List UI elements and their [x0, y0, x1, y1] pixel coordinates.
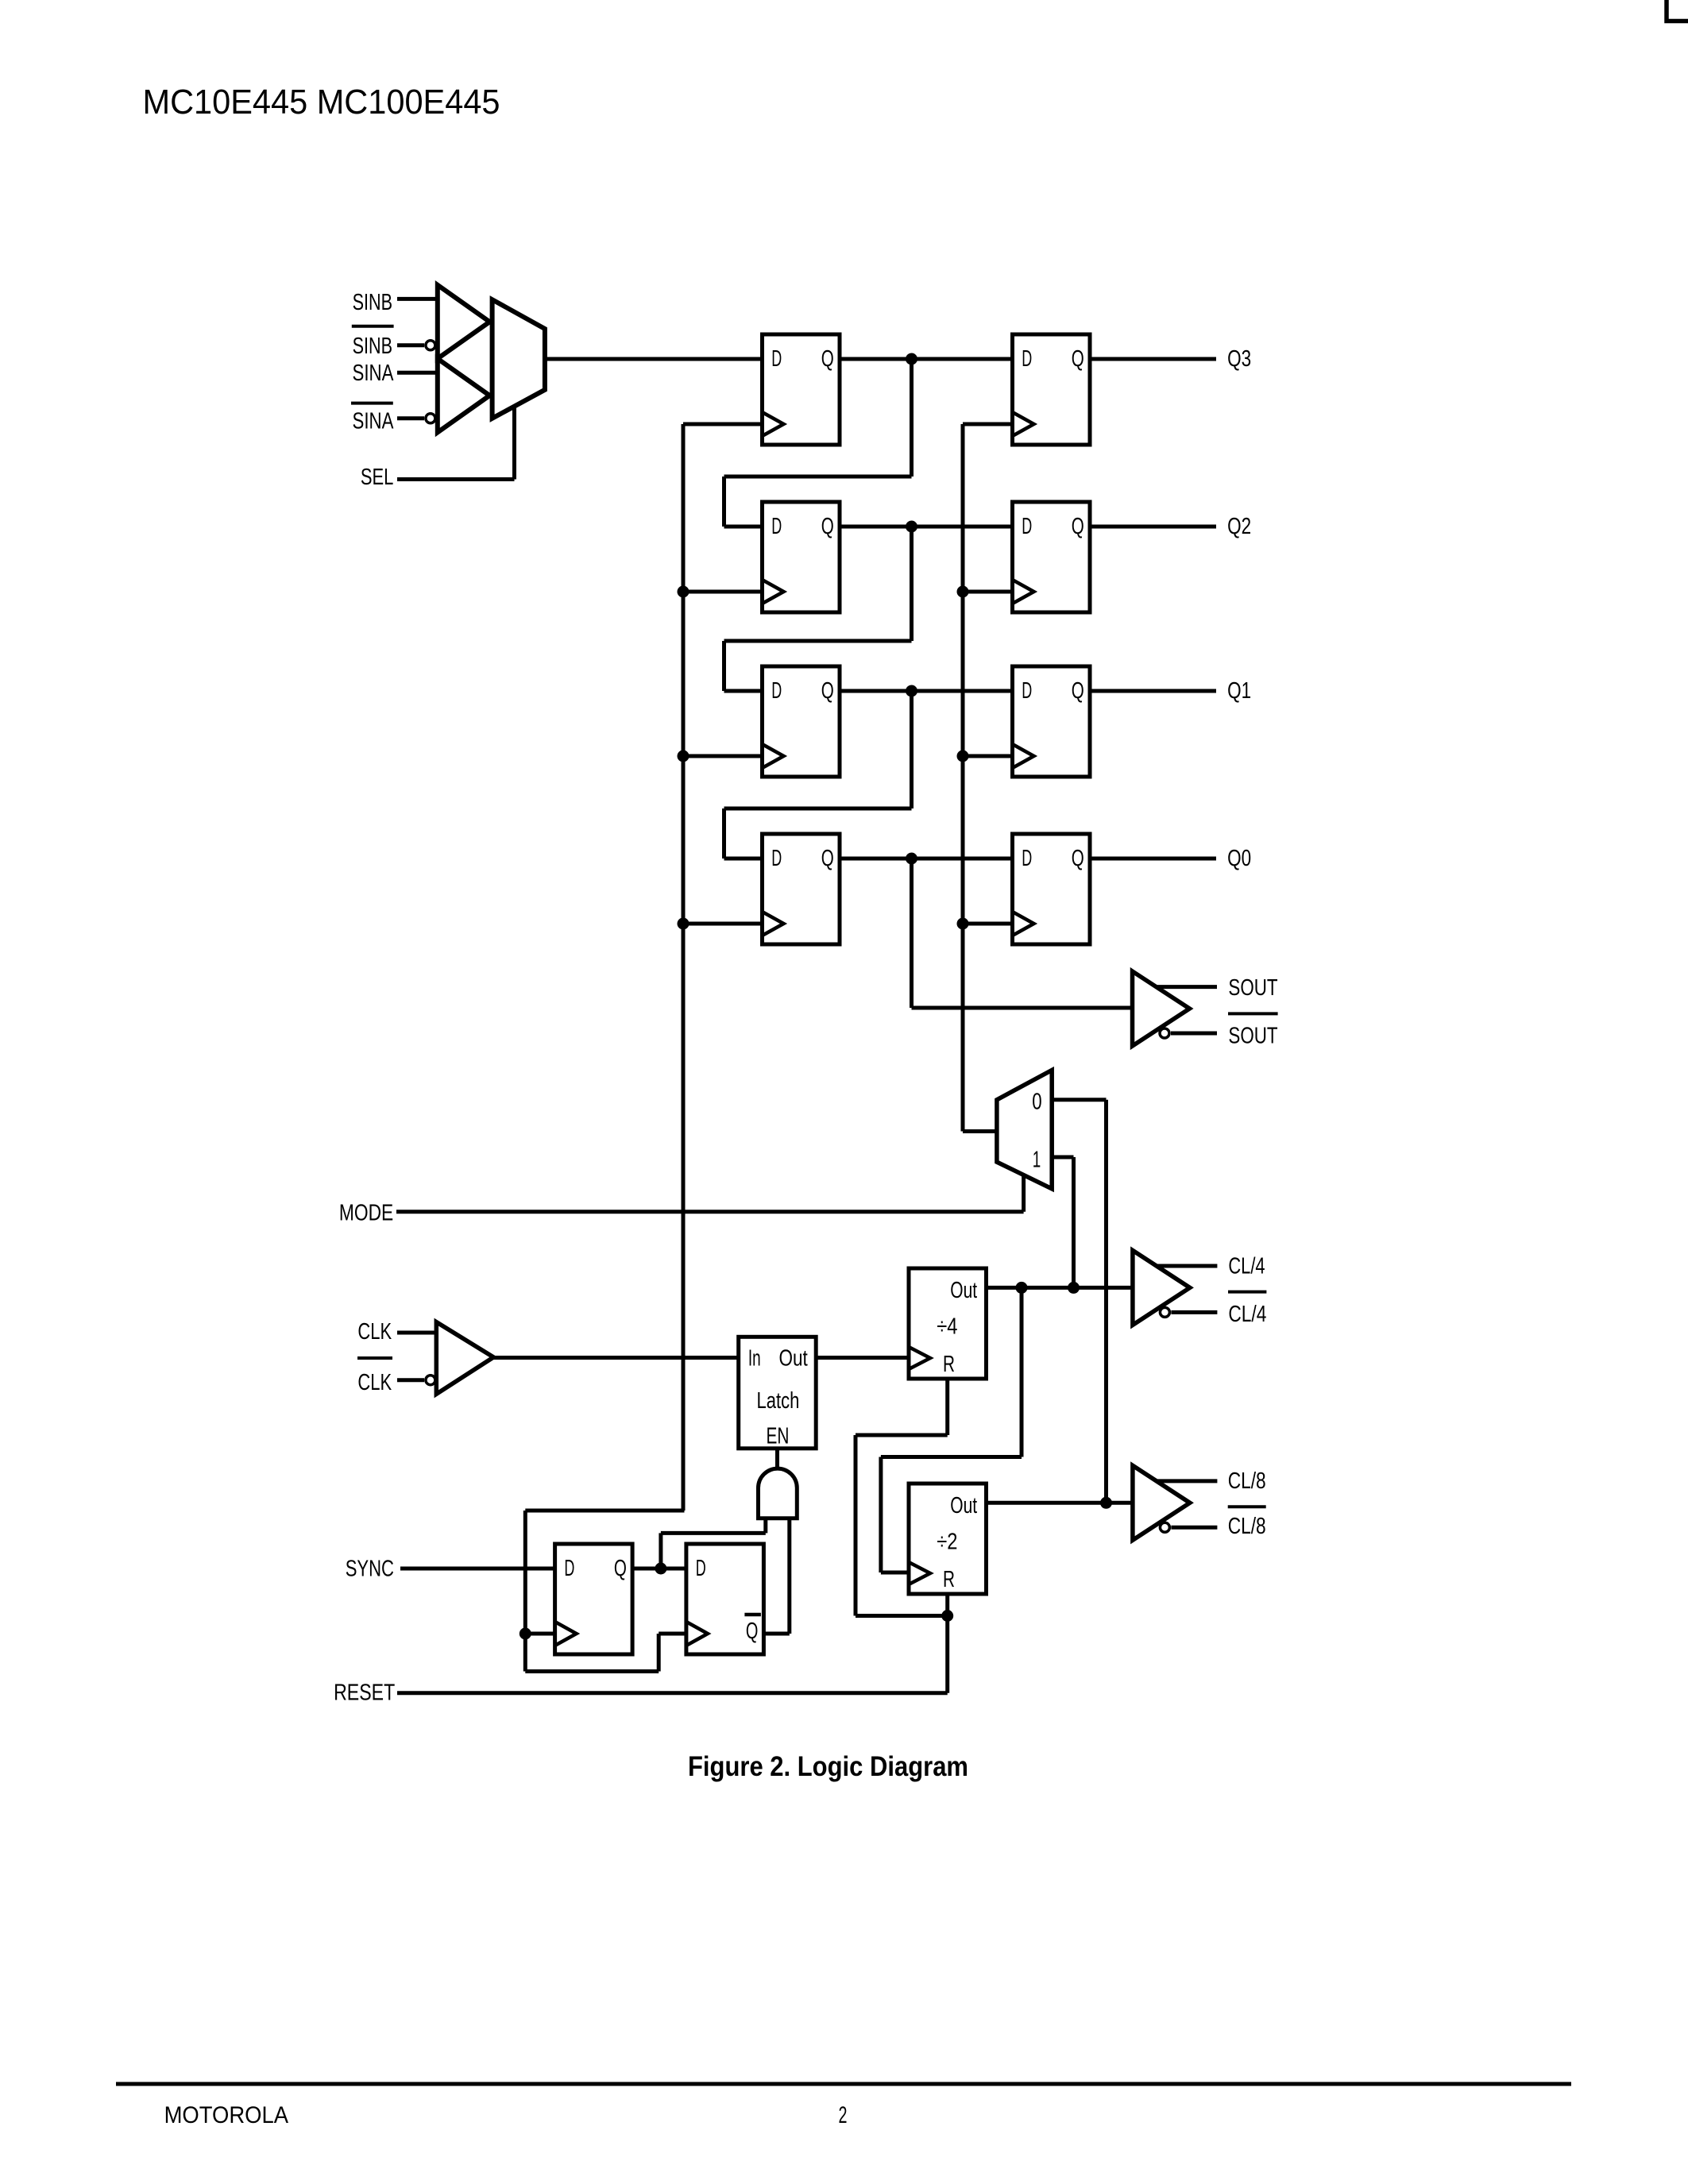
svg-text:CL/4: CL/4 [1228, 1253, 1265, 1279]
svg-text:SINB: SINB [353, 290, 392, 315]
svg-text:EN: EN [767, 1424, 790, 1449]
svg-text:2: 2 [839, 2102, 848, 2128]
svg-text:SINA: SINA [353, 409, 394, 434]
svg-text:Latch: Latch [757, 1388, 800, 1414]
svg-text:MODE: MODE [339, 1201, 393, 1226]
svg-text:Q2: Q2 [1227, 514, 1251, 539]
svg-text:Figure 2. Logic Diagram: Figure 2. Logic Diagram [688, 1751, 968, 1782]
svg-text:SEL: SEL [361, 465, 394, 490]
svg-text:SINA: SINA [353, 361, 394, 386]
svg-text:Q3: Q3 [1227, 346, 1251, 372]
svg-text:CLK: CLK [357, 1370, 392, 1395]
svg-text:SINB: SINB [353, 334, 392, 359]
svg-text:0: 0 [1032, 1090, 1041, 1115]
svg-text:÷2: ÷2 [937, 1529, 957, 1554]
svg-text:1: 1 [1033, 1148, 1041, 1173]
svg-text:SOUT: SOUT [1228, 1024, 1277, 1049]
svg-text:MOTOROLA: MOTOROLA [164, 2102, 288, 2128]
svg-text:Q0: Q0 [1227, 846, 1251, 871]
svg-text:RESET: RESET [334, 1680, 395, 1705]
svg-text:CL/8: CL/8 [1228, 1468, 1266, 1494]
svg-text:Q1: Q1 [1227, 678, 1251, 704]
svg-text:SYNC: SYNC [346, 1557, 394, 1582]
svg-text:CLK: CLK [357, 1319, 392, 1345]
svg-text:In: In [748, 1346, 761, 1372]
svg-text:CL/4: CL/4 [1228, 1302, 1266, 1327]
svg-text:SOUT: SOUT [1228, 975, 1277, 1001]
svg-text:÷4: ÷4 [937, 1314, 957, 1339]
svg-text:Out: Out [779, 1346, 808, 1372]
svg-text:CL/8: CL/8 [1228, 1514, 1266, 1539]
svg-text:MC10E445 MC100E445: MC10E445 MC100E445 [143, 83, 500, 122]
